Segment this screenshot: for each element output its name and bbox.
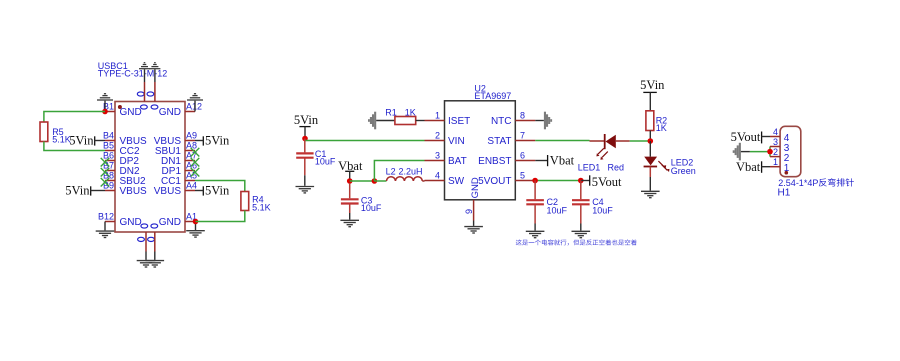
ground below pin A1 — [186, 222, 205, 238]
svg-text:R1: R1 — [385, 107, 397, 117]
ground (flipped) above pin A12 — [187, 94, 203, 112]
svg-text:5Vin: 5Vin — [205, 184, 230, 198]
svg-text:5.1K: 5.1K — [52, 135, 71, 145]
net flag 5Vin at pin B9 — [65, 184, 105, 198]
svg-text:BAT: BAT — [448, 156, 467, 167]
connector H1 refdes label — [778, 178, 854, 199]
capacitor C1 — [296, 139, 336, 176]
ground (flipped) at top shell S1 — [139, 63, 150, 69]
pin 3 of H1 — [770, 137, 790, 154]
capacitor C3 — [341, 183, 382, 213]
pin 2 of H1 — [770, 147, 790, 164]
junction at 5Vin / C1 — [302, 136, 308, 142]
LED2 Green — [644, 141, 696, 176]
ground below C3 — [340, 213, 359, 227]
svg-text:B4: B4 — [103, 131, 114, 141]
ground below U2 pin 9 — [464, 221, 483, 233]
svg-text:1K: 1K — [405, 107, 416, 117]
svg-text:B5: B5 — [103, 141, 114, 151]
connector USBC1 refdes label — [98, 61, 168, 78]
svg-text:1: 1 — [435, 111, 440, 121]
junction at R2 / LED1 / LED2 — [648, 138, 654, 144]
ground below C4 — [572, 224, 591, 238]
svg-text:5Vin: 5Vin — [640, 78, 665, 92]
wire A5 to R4 top — [195, 181, 245, 192]
svg-text:L22.2uH: L22.2uH — [386, 167, 423, 177]
svg-text:SW: SW — [448, 176, 465, 187]
capacitor C2 — [526, 181, 567, 224]
svg-text:GND: GND — [159, 217, 181, 228]
pin 6 ENBST of U2 — [478, 151, 535, 167]
wire STAT pin 7 to LED1 — [535, 140, 589, 142]
wire node to BAT pin 3 — [374, 161, 424, 182]
svg-text:2: 2 — [435, 131, 440, 141]
pin A1 GND of USBC1 — [159, 212, 197, 229]
svg-text:TYPE-C-31-M-12: TYPE-C-31-M-12 — [98, 69, 168, 79]
svg-text:GND: GND — [120, 107, 142, 118]
pin A8 SBU1 of USBC1 — [155, 141, 197, 158]
svg-text:GND: GND — [470, 177, 481, 198]
wire node to L2 — [374, 180, 386, 182]
svg-text:7: 7 — [520, 131, 525, 141]
no-connect X at pin B6 — [101, 158, 110, 167]
resistor R4 — [241, 192, 271, 213]
pin A9 VBUS of USBC1 — [154, 131, 197, 148]
ground (flipped) above pin B1 — [97, 94, 113, 112]
wire R1 to ISET pin 1 — [416, 120, 425, 122]
svg-text:ENBST: ENBST — [478, 156, 511, 167]
ground below C2 — [526, 224, 545, 238]
pin 5 5VOUT of U2 — [478, 171, 535, 187]
net flag 5Vout at pin 5 net — [581, 175, 622, 189]
junction at Vbat / C3 — [347, 178, 353, 184]
svg-text:5VOUT: 5VOUT — [478, 176, 511, 187]
ground below bottom shell S4 — [146, 261, 165, 267]
svg-text:H1: H1 — [778, 187, 791, 198]
op-amp U2 ETA9697 body — [445, 83, 516, 200]
ground (sideways) at H1 pin 2 — [733, 143, 750, 161]
svg-text:5: 5 — [520, 171, 525, 181]
svg-text:LED1Red: LED1Red — [578, 163, 624, 173]
no-connect X at pin B7 — [101, 168, 110, 177]
svg-text:8: 8 — [520, 111, 525, 121]
pin A4 VBUS of USBC1 — [154, 181, 197, 198]
svg-text:ETA9697: ETA9697 — [474, 91, 511, 101]
connector H1 body — [780, 126, 801, 176]
svg-text:Vbat: Vbat — [550, 154, 575, 168]
ground below LED2 — [641, 167, 660, 198]
net flag 5Vin at pin B4 — [69, 134, 105, 148]
pin stub USBC1 bottom shell S4 — [154, 232, 156, 260]
ground (sideways) at R1 left — [368, 112, 395, 130]
power flag 5Vin at VIN — [294, 113, 319, 139]
ground (flipped) at top shell S2 — [149, 63, 160, 69]
svg-text:9: 9 — [464, 209, 474, 214]
connector USBC1 body — [115, 92, 185, 242]
wire B1 to R5 top — [44, 112, 105, 123]
wire ground to H1 pins 2+3 — [750, 147, 770, 157]
no-connect X at pin A8 — [191, 148, 200, 157]
svg-text:5Vin: 5Vin — [294, 113, 319, 127]
pin 7 STAT of U2 — [487, 131, 535, 147]
net flag 5Vin at pin A9 — [195, 134, 230, 148]
pin A7 DN1 of USBC1 — [161, 151, 197, 168]
svg-text:5Vin: 5Vin — [69, 134, 94, 148]
junction at A1 / R4 — [193, 219, 199, 225]
svg-text:5Vout: 5Vout — [731, 130, 761, 144]
capacitor C4 — [572, 181, 613, 224]
no-connect X at pin B8 — [101, 178, 110, 187]
net flag 5Vin at pin A4 — [195, 184, 230, 198]
ground below bottom shell S3 — [137, 261, 156, 267]
svg-text:6: 6 — [520, 151, 525, 161]
svg-text:NTC: NTC — [491, 116, 512, 127]
no-connect X at pin A7 — [191, 158, 200, 167]
svg-text:10uF: 10uF — [315, 157, 336, 167]
wire R5 bottom to B5 — [44, 142, 105, 151]
pin 9 GND of U2 — [464, 177, 481, 220]
svg-text:10uF: 10uF — [547, 206, 568, 216]
pin A12 GND of USBC1 — [159, 102, 202, 119]
svg-text:A12: A12 — [186, 102, 202, 112]
svg-text:VBUS: VBUS — [154, 186, 182, 197]
junction at C2 — [532, 178, 538, 184]
svg-text:5Vin: 5Vin — [205, 134, 230, 148]
svg-text:3: 3 — [773, 137, 778, 147]
svg-text:STAT: STAT — [487, 136, 511, 147]
pin 1 of H1 — [770, 157, 790, 174]
pin B7 DN2 of USBC1 — [103, 161, 140, 178]
net flag Vbat at ENBST pin 6 — [535, 154, 574, 168]
wire 5Vin to VIN pin 2 — [305, 140, 425, 142]
svg-text:5Vin: 5Vin — [65, 184, 90, 198]
svg-text:2: 2 — [773, 147, 778, 157]
svg-text:Green: Green — [671, 166, 696, 176]
pin B4 VBUS of USBC1 — [103, 131, 147, 148]
pin A6 DP1 of USBC1 — [162, 161, 197, 178]
pin stub USBC1 top shell S1 — [144, 69, 146, 101]
ground (sideways) at NTC pin 8 — [535, 112, 552, 130]
svg-text:5.1K: 5.1K — [252, 203, 271, 213]
svg-text:B12: B12 — [98, 212, 114, 222]
pin B8 SBU2 of USBC1 — [103, 171, 146, 188]
svg-text:VBUS: VBUS — [120, 186, 148, 197]
pin 8 NTC of U2 — [491, 111, 535, 127]
wire R4 bottom to A1 — [196, 211, 245, 222]
resistor R5 — [40, 122, 71, 145]
svg-text:GND: GND — [120, 217, 142, 228]
power flag Vbat at C3 — [338, 159, 363, 181]
svg-text:A4: A4 — [186, 181, 197, 191]
svg-text:ISET: ISET — [448, 116, 470, 127]
wire 5VOUT pin 5 to C2 — [535, 180, 581, 182]
svg-text:2.54-1*4P: 2.54-1*4P — [778, 178, 818, 188]
svg-text:1: 1 — [784, 163, 790, 174]
pin stub USBC1 top shell S2 — [154, 69, 156, 101]
wire LED1 to R2 node — [630, 140, 651, 142]
svg-text:GND: GND — [159, 107, 181, 118]
resistor R1 1K — [385, 107, 415, 124]
pin 2 VIN of U2 — [425, 131, 465, 147]
svg-text:10uF: 10uF — [361, 203, 382, 213]
pin B5 CC2 of USBC1 — [103, 141, 140, 158]
junction at C4 — [578, 178, 584, 184]
pin 4 of H1 — [770, 127, 790, 144]
net flag 5Vout at H1 pin 4 — [731, 130, 770, 144]
wire R2 to LED node — [649, 131, 651, 142]
svg-text:VIN: VIN — [448, 136, 465, 147]
svg-text:4: 4 — [435, 171, 440, 181]
wire Vbat node to L2 node — [350, 180, 375, 182]
pin B9 VBUS of USBC1 — [103, 181, 147, 198]
svg-text:5Vout: 5Vout — [592, 175, 622, 189]
junction at L2 / BAT — [372, 178, 378, 184]
pin B6 DP2 of USBC1 — [103, 151, 139, 168]
ground below pin B12 — [96, 222, 115, 238]
pin 4 SW of U2 — [425, 171, 465, 187]
resistor R2 1K — [646, 111, 667, 133]
note text (chinese) — [516, 239, 637, 245]
pin 1 ISET of U2 — [425, 111, 471, 127]
junction at B1 / R5 — [102, 109, 108, 115]
power flag 5Vin at R2 — [640, 78, 665, 111]
net flag Vbat at H1 pin 1 — [736, 160, 770, 174]
svg-text:3: 3 — [435, 151, 440, 161]
LED1 Red — [578, 134, 630, 173]
pin 3 BAT of U2 — [425, 151, 467, 167]
svg-text:10uF: 10uF — [592, 206, 613, 216]
pin A5 CC1 of USBC1 — [161, 171, 197, 188]
svg-text:Vbat: Vbat — [736, 160, 761, 174]
pin B1 GND of USBC1 — [103, 102, 142, 119]
svg-text:4: 4 — [773, 127, 778, 137]
svg-text:1K: 1K — [656, 123, 667, 133]
svg-text:A9: A9 — [186, 131, 197, 141]
pin stub USBC1 bottom shell S3 — [145, 232, 147, 260]
svg-text:1: 1 — [773, 157, 778, 167]
no-connect X at pin A6 — [191, 168, 200, 177]
pin B12 GND of USBC1 — [98, 212, 142, 229]
junction at H1 pin 2 — [767, 149, 773, 155]
inductor L2 2.2uH — [386, 167, 425, 181]
ground below C1 — [296, 175, 315, 193]
